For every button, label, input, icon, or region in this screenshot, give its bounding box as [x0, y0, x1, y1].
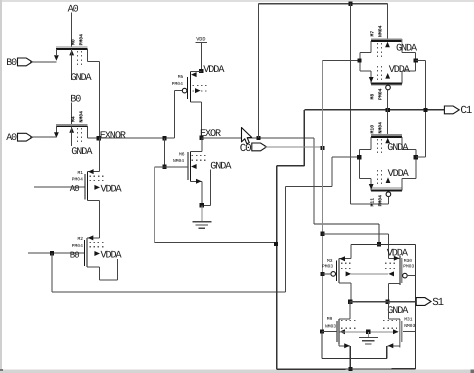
node B0 gate label of M2 — [70, 250, 79, 260]
wire S1 rail — [350, 301, 416, 303]
svg-text:VDDA: VDDA — [389, 65, 411, 76]
transistor M11 of TG2 — [359, 170, 416, 190]
svg-text:A0: A0 — [68, 5, 79, 16]
transistor M10 of TG2 — [359, 135, 416, 154]
svg-text:GNDA: GNDA — [396, 44, 418, 55]
transistor M8 name label — [369, 94, 375, 100]
ground symbol of sum stage — [359, 338, 378, 344]
svg-text:M2: M2 — [78, 236, 84, 242]
wire EXOR drop to TG2 pgate — [351, 4, 389, 205]
junction TG mid gates on C1 — [386, 108, 390, 112]
port C1 text — [460, 105, 471, 117]
wire EXNOR left drop of M6 gate — [155, 167, 165, 243]
wire M31 drain up to S1 — [387, 302, 389, 319]
transistor M3 — [337, 256, 353, 283]
M3 gate bubble — [331, 272, 336, 277]
transistor M6 name label — [179, 152, 185, 158]
junction C0 to sum pmos pair — [321, 232, 325, 236]
svg-text:PM03: PM03 — [403, 264, 414, 270]
junction top branch — [349, 2, 353, 6]
wire TG1 ngate stub — [387, 4, 389, 40]
sum pmos bulk label VDDA — [387, 249, 409, 260]
transistor M5 name label — [178, 74, 184, 80]
svg-text:A0: A0 — [70, 184, 79, 194]
transistor M6 model label NM04 — [173, 158, 184, 164]
svg-text:M0: M0 — [71, 39, 77, 45]
sum nmos bulk label GNDA — [387, 306, 409, 317]
transistor M9 — [337, 319, 357, 348]
transistor M4 model label NM04 — [79, 111, 85, 123]
junction EXOR-to-top tap — [256, 136, 260, 140]
svg-text:M4: M4 — [71, 116, 77, 122]
wire M31 gate — [403, 331, 415, 333]
transistor M1 — [85, 169, 106, 201]
sum nmos bulk line — [339, 331, 398, 333]
wire EXOR rail — [202, 137, 315, 139]
transistor M0 model label PM04 — [79, 34, 85, 46]
wire M2 source to bulk tie — [99, 259, 117, 280]
svg-text:VDDA: VDDA — [203, 65, 225, 76]
junction M6 gate node — [162, 165, 166, 169]
transistor M30 model label PM03 — [403, 264, 414, 270]
wire M6 gate — [164, 166, 187, 168]
wire TG2 output up — [416, 156, 426, 158]
transistor M8 of TG1 — [360, 66, 416, 85]
wire C1 net left leg — [277, 110, 305, 166]
transistor M1 name label — [78, 170, 84, 176]
wire M2 gate node down — [51, 253, 53, 292]
wire M9 source down — [349, 346, 351, 369]
junction S1 left — [348, 300, 352, 304]
transistor M3 model label PM03 — [322, 263, 333, 269]
svg-text:B0: B0 — [6, 57, 17, 68]
wire M1 source to M2 drain — [98, 201, 100, 238]
wire TG1 output to C1 — [416, 61, 426, 158]
svg-text:NM03: NM03 — [325, 323, 336, 329]
wire C0 lower drop — [321, 332, 323, 359]
wire B0 net bottom run — [52, 291, 286, 293]
transistor M5 model label PM04 — [172, 81, 183, 87]
wire to ground — [201, 205, 203, 221]
svg-text:VDDA: VDDA — [101, 251, 123, 262]
port B0 — [18, 58, 33, 66]
transistor M30 — [385, 256, 402, 285]
svg-text:C0: C0 — [240, 143, 251, 155]
junction TG2 output — [414, 155, 418, 159]
svg-text:A0: A0 — [6, 132, 17, 143]
wire TG2 pgate stub — [387, 197, 389, 205]
transistor M10 name label — [369, 125, 375, 134]
svg-text:PM03: PM03 — [322, 263, 333, 269]
svg-text:M8: M8 — [369, 94, 375, 100]
junction EXNOR to inverter tap — [162, 136, 166, 140]
transistor M31 — [383, 319, 402, 348]
svg-text:B0: B0 — [70, 250, 79, 260]
wire TG1 pgate to TG2 ngate — [387, 90, 389, 135]
M1 bulk label VDDA — [101, 184, 123, 195]
wire M5 drain down to EXOR — [201, 102, 203, 138]
wire bottom run — [277, 368, 416, 370]
svg-text:EXOR: EXOR — [200, 129, 221, 140]
svg-text:GNDA: GNDA — [387, 143, 409, 154]
transistor M10 model label NM04 — [377, 122, 383, 134]
wire M1 gate stub — [34, 186, 85, 188]
svg-text:M9: M9 — [327, 316, 333, 322]
svg-text:M31: M31 — [404, 316, 413, 322]
junction TG2 input — [357, 155, 361, 159]
port A0 — [18, 133, 33, 141]
M0 bulk label GNDA — [71, 73, 93, 84]
wire M3 gate — [323, 273, 331, 275]
sum pmos bulk line — [351, 273, 388, 275]
transistor M1 model label PM04 — [72, 177, 83, 183]
wire C1 rail — [304, 109, 444, 111]
junction TG1 input — [358, 58, 362, 62]
wire M6 bulk tie — [202, 170, 211, 206]
wire inverter input drop — [163, 138, 165, 167]
transistor M7 model label NM04 — [377, 25, 383, 37]
node A0 net label — [68, 5, 79, 16]
wire M5 gate — [174, 91, 182, 139]
junction M2 gate node — [50, 251, 54, 255]
node B0 net label — [70, 95, 81, 106]
wire C0 to TG1 input — [323, 60, 360, 62]
junction ground tap — [366, 330, 370, 334]
svg-text:NM04: NM04 — [173, 158, 184, 164]
svg-text:GNDA: GNDA — [387, 306, 409, 317]
port S1 — [416, 298, 431, 306]
wire M6 source down — [201, 181, 203, 205]
wire M0 right leg to EXNOR rail — [87, 61, 99, 138]
window bottom scrollbar strip — [0, 369, 474, 373]
transistor M31 name label — [404, 316, 413, 322]
M8 bulk label VDDA — [389, 65, 411, 76]
transistor M4 name label — [71, 116, 77, 122]
port C0 — [252, 143, 267, 151]
wire EXNOR rail — [99, 137, 175, 139]
wire sum right gate rail — [414, 245, 416, 369]
transistor M5 — [188, 71, 207, 102]
transistor M2 name label — [78, 236, 84, 242]
transistor M6 — [188, 151, 207, 183]
svg-text:NM04: NM04 — [79, 111, 85, 123]
wire TG2 right rail — [415, 150, 417, 179]
junction C0 tap — [321, 146, 325, 150]
wire C1 net down left side — [276, 166, 278, 369]
transistor M30 name label — [404, 258, 413, 264]
transistor M11 name label — [369, 198, 375, 207]
wire EXOR sum drop — [378, 224, 380, 244]
junction EXOR feed node — [377, 242, 381, 246]
wire B0 net to TG2 left — [286, 157, 360, 186]
transistor M0 name label — [71, 39, 77, 45]
M7 bulk line — [401, 39, 403, 44]
svg-text:NM04: NM04 — [377, 25, 383, 37]
wire C0 to M31 source — [386, 346, 388, 359]
wire EXOR up left — [257, 4, 259, 138]
wire M6 drain up to EXOR — [201, 138, 203, 151]
wire B0 port to M0 — [30, 61, 56, 63]
wire VDD to VDDA node — [200, 43, 202, 71]
M11 gate bubble — [386, 192, 391, 197]
wire B0 net up jog — [285, 186, 287, 292]
junction M6 source-ground node — [200, 203, 204, 207]
transistor M2 — [85, 235, 106, 266]
svg-text:PM04: PM04 — [72, 177, 83, 183]
junction EXNOR joins C1 net — [274, 242, 278, 246]
junction bottom node — [349, 367, 353, 371]
wire A0 port to M4 — [30, 136, 56, 138]
transistor M11 model label PM04 — [377, 195, 383, 207]
junction S1 right — [386, 300, 390, 304]
transistor M2 model label PM04 — [72, 243, 83, 249]
window left border — [0, 0, 2, 373]
transistor M8 model label PM04 — [377, 88, 383, 100]
transistor M3 name label — [327, 258, 333, 264]
transistor M9 model label NM03 — [325, 323, 336, 329]
transistor M7 of TG1 — [360, 39, 416, 58]
port B0 text — [6, 57, 17, 68]
port C1 — [444, 106, 459, 114]
transistor M9 name label — [327, 316, 333, 322]
svg-text:M7: M7 — [369, 31, 375, 37]
wire A0 label to M0 gate — [71, 13, 73, 48]
wire M9 drain up to S1 — [349, 302, 351, 319]
net label EXOR — [200, 129, 221, 140]
svg-text:M11: M11 — [369, 198, 375, 207]
transistor M7 name label — [369, 31, 375, 37]
wire EXOR corner down — [313, 138, 315, 224]
svg-text:M6: M6 — [179, 152, 185, 158]
M11 bulk label VDDA — [388, 169, 410, 180]
port A0 text — [6, 132, 17, 143]
svg-text:PM04: PM04 — [79, 34, 85, 46]
junction TG1 output — [414, 58, 418, 62]
M30 gate bubble — [403, 273, 408, 278]
net label EXNOR — [100, 131, 126, 142]
wire ground stub — [367, 332, 369, 338]
port C0 text — [240, 143, 251, 155]
svg-text:EXNOR: EXNOR — [100, 131, 126, 142]
node A0 gate label of M1 — [70, 184, 79, 194]
wire EXOR top run — [258, 3, 387, 5]
junction C1 rail tap right — [423, 108, 427, 112]
svg-text:VDD: VDD — [196, 36, 205, 42]
wire C0 bottom run — [322, 357, 387, 359]
svg-text:S1: S1 — [432, 297, 443, 309]
wire M2 gate stub — [28, 252, 84, 254]
transistor M31 model label NM03 — [404, 323, 415, 329]
wire M30 gate — [407, 275, 415, 277]
ground symbol of inverter — [192, 222, 211, 228]
M8 gate bubble — [386, 85, 391, 90]
svg-text:M10: M10 — [369, 125, 375, 134]
wire M2 source down — [98, 267, 100, 280]
wire C0 port to C0 riser — [264, 146, 322, 148]
svg-text:PM04: PM04 — [72, 243, 83, 249]
transistor M4 — [54, 124, 87, 146]
M7 bulk label GNDA — [396, 44, 418, 55]
wire M9 gate — [322, 331, 337, 333]
wire M30 drain down to S1 — [387, 283, 389, 301]
wire TG1 left rail — [359, 53, 361, 72]
junction M3 gate tap — [321, 272, 325, 276]
svg-text:M30: M30 — [404, 258, 413, 264]
junction EXOR node — [199, 136, 203, 140]
wire C0 riser — [322, 61, 324, 332]
power VDD label — [196, 36, 205, 42]
svg-text:GNDA: GNDA — [71, 73, 93, 84]
svg-text:PM04: PM04 — [172, 81, 183, 87]
M6 bulk label GNDA — [210, 161, 232, 172]
wire B0 label to M4 gate — [71, 103, 73, 125]
M5 gate bubble — [182, 88, 187, 93]
svg-text:PM04: PM04 — [377, 88, 383, 100]
wire M4 right leg to EXNOR node — [87, 137, 99, 139]
M2 bulk label VDDA — [101, 251, 123, 262]
wire M1 drain up to EXNOR node — [98, 138, 100, 171]
junction M9 gate tap — [320, 330, 324, 334]
window top border — [0, 0, 474, 2]
svg-text:NM03: NM03 — [404, 323, 415, 329]
wire EXOR feed rail — [351, 244, 415, 246]
M5 source label VDDA — [203, 65, 225, 76]
svg-text:GNDA: GNDA — [71, 147, 93, 158]
wire TG2 left rail — [358, 150, 360, 179]
svg-text:M3: M3 — [327, 258, 333, 264]
svg-text:NM04: NM04 — [377, 122, 383, 134]
svg-text:C1: C1 — [460, 105, 471, 117]
M4 bulk label GNDA — [71, 147, 93, 158]
junction VDDA node — [199, 69, 203, 73]
svg-text:M1: M1 — [78, 170, 84, 176]
wire M3 source up to EXOR rail — [350, 245, 352, 259]
svg-text:PM04: PM04 — [377, 195, 383, 207]
transistor M0 — [54, 47, 87, 80]
junction EXNOR node — [97, 136, 101, 140]
wire C0 top feed — [323, 234, 395, 258]
port S1 text — [432, 297, 443, 309]
mouse cursor — [242, 128, 252, 144]
power VDD supply bar — [195, 42, 207, 44]
M10 bulk label GNDA — [387, 143, 409, 154]
wire EXOR to sum block — [314, 223, 379, 225]
wire EXNOR bottom run — [155, 242, 276, 244]
svg-text:M5: M5 — [178, 74, 184, 80]
svg-text:VDDA: VDDA — [101, 184, 123, 195]
wire TG1 right rail — [415, 53, 417, 72]
svg-text:GNDA: GNDA — [210, 161, 232, 172]
wire M3 drain down to S1 — [350, 283, 352, 302]
